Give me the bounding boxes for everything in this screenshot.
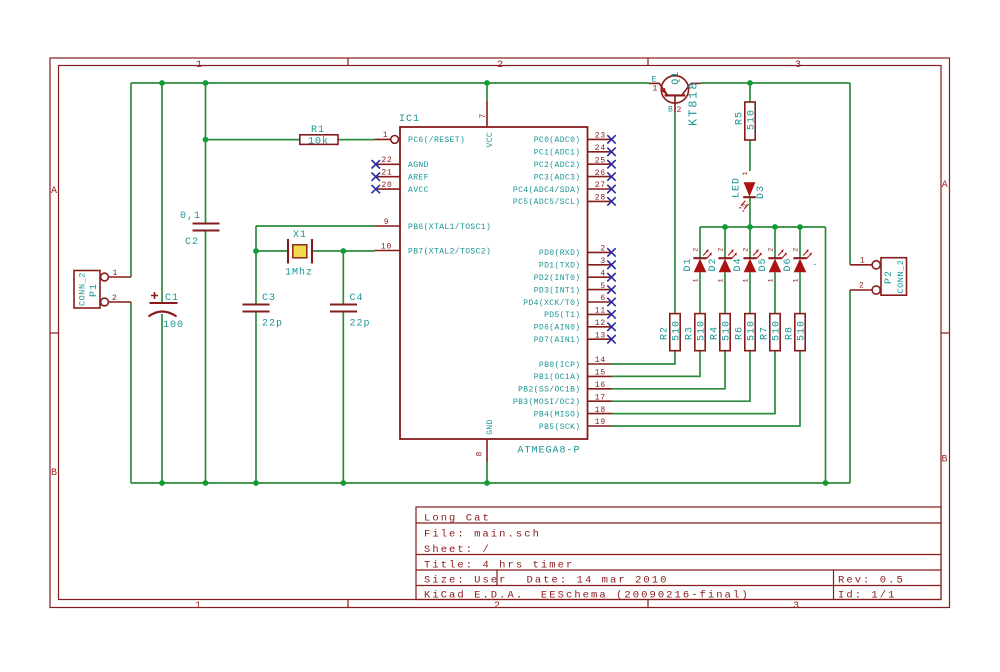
svg-text:KiCad E.D.A. EESchema (200902: KiCad E.D.A. EESchema (20090216-final): [424, 590, 750, 602]
svg-text:C3: C3: [262, 293, 276, 304]
pin 15 PB1(OC1A): [534, 369, 612, 383]
svg-text:2: 2: [497, 60, 503, 71]
svg-text:2: 2: [600, 245, 606, 254]
junction LED rail D6: [797, 224, 803, 230]
svg-text:P1: P1: [89, 283, 100, 297]
LED D4: [733, 248, 762, 283]
pin 28 PC5(ADC5/SCL): [513, 194, 616, 208]
svg-text:1: 1: [768, 278, 776, 282]
wire PB5 to R8: [612, 351, 801, 426]
svg-text:P2: P2: [884, 270, 895, 284]
LED D5: [758, 248, 787, 283]
svg-text:LED: LED: [732, 177, 743, 198]
svg-text:CONN_2: CONN_2: [896, 260, 906, 294]
resistor R3: [685, 314, 708, 351]
svg-text:AREF: AREF: [408, 174, 429, 183]
svg-text:VCC: VCC: [486, 132, 495, 148]
wire P1 pin2 down: [130, 302, 132, 483]
svg-text:E: E: [652, 76, 657, 85]
svg-text:PC6(/RESET): PC6(/RESET): [408, 136, 465, 145]
svg-text:AVCC: AVCC: [408, 186, 429, 195]
svg-text:PD1(TXD): PD1(TXD): [539, 262, 581, 271]
svg-text:R7: R7: [760, 326, 771, 340]
border frame: [50, 58, 950, 608]
junction C2 top: [203, 80, 209, 86]
svg-text:22p: 22p: [350, 319, 371, 330]
svg-text:2: 2: [742, 203, 750, 207]
svg-text:10: 10: [381, 242, 392, 251]
junction LED rail D2: [722, 224, 728, 230]
svg-text:PD2(INT0): PD2(INT0): [534, 274, 581, 283]
capacitor C2: [180, 211, 220, 248]
svg-text:B: B: [668, 106, 673, 115]
svg-text:D6: D6: [783, 257, 794, 271]
svg-text:R8: R8: [785, 326, 796, 340]
resistor R6: [735, 314, 758, 351]
svg-text:PB0(ICP): PB0(ICP): [539, 361, 581, 370]
svg-text:6: 6: [600, 294, 606, 303]
svg-text:C4: C4: [350, 293, 364, 304]
pin 9 PB6(XTAL1/TOSC1): [375, 218, 492, 232]
svg-text:PB4(MISO): PB4(MISO): [534, 410, 581, 419]
pin 14 PB0(ICP): [539, 356, 612, 370]
svg-text:510: 510: [771, 320, 782, 341]
wire D6 column: [799, 227, 801, 314]
junction R5 top: [747, 80, 753, 86]
wire D1 column: [699, 227, 701, 314]
svg-text:1: 1: [653, 85, 659, 94]
svg-text:21: 21: [381, 169, 392, 178]
wire VCC top rail right: [701, 82, 851, 84]
pin 20 AVCC: [372, 181, 429, 195]
svg-text:14: 14: [595, 356, 606, 365]
junction R1 node: [203, 137, 209, 143]
svg-text:R6: R6: [735, 326, 746, 340]
svg-text:File: main.sch: File: main.sch: [424, 529, 541, 541]
svg-text:1: 1: [860, 257, 866, 266]
svg-text:R2: R2: [660, 326, 671, 340]
wire C2 top: [205, 83, 207, 223]
svg-text:1: 1: [196, 60, 202, 71]
junction LED rail D3: [747, 224, 753, 230]
svg-text:R3: R3: [685, 326, 696, 340]
junction VCC pin: [484, 80, 490, 86]
wire VCC pin7: [486, 83, 488, 101]
pin 11 PD5(T1): [544, 307, 616, 321]
svg-text:B: B: [942, 455, 948, 466]
pin 5 PD3(INT1): [534, 282, 616, 296]
pin 21 AREF: [372, 169, 429, 183]
wire P1 pin1 up: [130, 83, 132, 277]
svg-text:9: 9: [384, 218, 390, 227]
svg-text:PC4(ADC4/SDA): PC4(ADC4/SDA): [513, 186, 581, 195]
svg-text:Size: User: Size: User: [424, 575, 508, 587]
wire D2 column: [724, 227, 726, 314]
junction C4 bottom: [340, 480, 346, 486]
svg-text:Sheet: /: Sheet: /: [424, 544, 491, 556]
junction C1 top: [159, 80, 165, 86]
svg-text:2: 2: [693, 248, 701, 252]
svg-text:B: B: [51, 468, 57, 479]
svg-text:1: 1: [693, 278, 701, 282]
junction X1 left: [253, 248, 259, 254]
svg-text:23: 23: [595, 132, 606, 141]
svg-text:20: 20: [381, 181, 392, 190]
op-amp IC1 body (ATMEGA8-P): [400, 127, 588, 439]
pin 27 PC4(ADC4/SDA): [513, 181, 616, 195]
svg-text:D4: D4: [733, 257, 744, 271]
pin 2 PD0(RXD): [539, 245, 616, 259]
svg-text:Long Cat: Long Cat: [424, 513, 491, 525]
svg-text:510: 510: [746, 109, 757, 130]
svg-text:GND: GND: [486, 419, 495, 435]
svg-text:1: 1: [743, 278, 751, 282]
wire VCC top rail left: [131, 82, 649, 84]
svg-text:2: 2: [768, 248, 776, 252]
svg-text:5: 5: [600, 282, 606, 291]
svg-text:R1: R1: [311, 125, 325, 136]
wire LED anode rail: [700, 226, 826, 228]
svg-text:Rev: 0.5: Rev: 0.5: [838, 575, 905, 587]
pin 25 PC2(ADC2): [534, 156, 616, 170]
pin 1 PC6(/RESET): [375, 131, 466, 145]
wire C1 top: [161, 83, 163, 302]
svg-text:1: 1: [742, 171, 750, 175]
svg-text:R5: R5: [735, 111, 746, 125]
wire C1 bottom: [161, 314, 163, 483]
pin 3 PD1(TXD): [539, 257, 616, 271]
svg-text:PC3(ADC3): PC3(ADC3): [534, 173, 581, 182]
svg-text:3: 3: [793, 601, 799, 612]
svg-text:R4: R4: [710, 326, 721, 340]
svg-text:Date: 14 mar 2010: Date: 14 mar 2010: [527, 575, 669, 587]
svg-text:PC5(ADC5/SCL): PC5(ADC5/SCL): [513, 198, 581, 207]
wire Q1 base down to R2: [674, 112, 676, 313]
svg-text:CONN_2: CONN_2: [78, 272, 88, 306]
svg-text:PD7(AIN1): PD7(AIN1): [534, 336, 581, 345]
wire R5 to D3: [749, 140, 751, 171]
svg-text:22: 22: [381, 156, 392, 165]
svg-text:2: 2: [859, 282, 865, 291]
svg-text:D3: D3: [756, 185, 767, 199]
pin 17 PB3(MOSI/OC2): [513, 393, 612, 407]
pin 8 GND: [475, 419, 495, 462]
wire GND bottom rail: [131, 482, 850, 484]
svg-text:26: 26: [595, 169, 606, 178]
LED D1: [683, 248, 712, 283]
svg-text:19: 19: [595, 418, 606, 427]
pin 24 PC1(ADC1): [534, 144, 616, 158]
svg-text:PD6(AIN0): PD6(AIN0): [534, 324, 581, 333]
junction X1 right: [340, 248, 346, 254]
svg-text:100: 100: [163, 320, 184, 331]
junction LED rail drop: [823, 480, 829, 486]
svg-text:1: 1: [793, 278, 801, 282]
svg-text:PB2(SS/OC1B): PB2(SS/OC1B): [518, 386, 580, 395]
pin 12 PD6(AIN0): [534, 319, 616, 333]
svg-text:7: 7: [479, 113, 488, 119]
svg-text:1Mhz: 1Mhz: [285, 267, 313, 279]
wire D3 to LED rail: [749, 198, 751, 228]
svg-text:AGND: AGND: [408, 161, 429, 170]
junction LED rail D5: [772, 224, 778, 230]
svg-text:1: 1: [383, 131, 389, 140]
svg-text:27: 27: [595, 181, 606, 190]
svg-text:16: 16: [595, 381, 606, 390]
pin 23 PC0(ADC0): [534, 132, 616, 146]
svg-text:2: 2: [494, 601, 500, 612]
svg-text:1: 1: [718, 278, 726, 282]
svg-text:28: 28: [595, 194, 606, 203]
svg-text:10k: 10k: [308, 135, 329, 147]
svg-text:4: 4: [600, 269, 606, 278]
svg-text:PD4(XCK/T0): PD4(XCK/T0): [523, 299, 580, 308]
connector P2: [850, 258, 907, 296]
svg-text:PD0(RXD): PD0(RXD): [539, 249, 581, 258]
wire D4 column: [749, 227, 751, 314]
wire X1 left lead: [256, 250, 287, 252]
svg-text:510: 510: [746, 320, 757, 341]
svg-text:Id: 1/1: Id: 1/1: [838, 590, 896, 602]
capacitor C3: [243, 293, 284, 330]
resistor R4: [710, 314, 733, 351]
connector P1: [74, 271, 131, 309]
LED D6: [783, 248, 819, 283]
pin 26 PC3(ADC3): [534, 169, 616, 183]
svg-text:Q1: Q1: [671, 71, 682, 85]
LED D2: [708, 248, 737, 283]
svg-text:KT818: KT818: [687, 80, 701, 126]
wire XTAL1 to PB6: [256, 225, 375, 227]
svg-text:C1: C1: [165, 293, 179, 304]
svg-text:D1: D1: [683, 257, 694, 271]
svg-text:18: 18: [595, 406, 606, 415]
svg-text:2: 2: [743, 248, 751, 252]
svg-text:PB5(SCK): PB5(SCK): [539, 423, 581, 432]
svg-text:2: 2: [677, 106, 683, 115]
crystal X1: [285, 230, 313, 279]
svg-text:A: A: [51, 186, 57, 197]
svg-text:A: A: [942, 180, 948, 191]
wire PB4 to R7: [612, 351, 776, 414]
pin 7 VCC: [479, 101, 495, 148]
resistor R2: [660, 314, 683, 351]
svg-text:17: 17: [595, 393, 606, 402]
svg-text:PB6(XTAL1/TOSC1): PB6(XTAL1/TOSC1): [408, 223, 491, 232]
wire C2 bottom: [205, 231, 207, 483]
svg-text:0,1: 0,1: [180, 211, 201, 222]
svg-text:3: 3: [600, 257, 606, 266]
wire R1 left: [206, 139, 300, 141]
svg-text:-: -: [813, 261, 819, 270]
svg-text:2: 2: [718, 248, 726, 252]
junction C2 bottom: [203, 480, 209, 486]
wire X1 right down to C4: [342, 251, 344, 304]
svg-text:510: 510: [671, 320, 682, 341]
junction C3 bottom: [253, 480, 259, 486]
wire PB3 to R6: [612, 351, 751, 402]
wire PB2 to R4: [612, 351, 726, 389]
svg-text:510: 510: [696, 320, 707, 341]
svg-text:X1: X1: [293, 230, 307, 241]
svg-text:12: 12: [595, 319, 606, 328]
pin 18 PB4(MISO): [534, 406, 612, 420]
svg-text:3: 3: [795, 60, 801, 71]
wire P2 pin2 down: [849, 290, 851, 483]
svg-text:13: 13: [595, 331, 606, 340]
pin 19 PB5(SCK): [539, 418, 612, 432]
svg-text:1: 1: [195, 601, 201, 612]
resistor R1: [300, 125, 338, 147]
wire XTAL2 to PB7: [343, 250, 374, 252]
wire C3 bottom: [255, 312, 257, 483]
pin 4 PD2(INT0): [534, 269, 616, 283]
svg-text:D5: D5: [758, 257, 769, 271]
svg-text:25: 25: [595, 156, 606, 165]
svg-text:PD3(INT1): PD3(INT1): [534, 286, 581, 295]
wire X1 left down to C3: [255, 226, 257, 304]
svg-text:PB1(OC1A): PB1(OC1A): [534, 373, 581, 382]
pin 6 PD4(XCK/T0): [523, 294, 615, 308]
wire D5 column: [774, 227, 776, 314]
svg-text:IC1: IC1: [399, 114, 420, 125]
svg-text:2: 2: [793, 248, 801, 252]
svg-text:510: 510: [796, 320, 807, 341]
resistor R8: [785, 314, 808, 351]
svg-text:PB3(MOSI/OC2): PB3(MOSI/OC2): [513, 398, 581, 407]
svg-text:PC2(ADC2): PC2(ADC2): [534, 161, 581, 170]
svg-text:2: 2: [112, 294, 118, 303]
pin 16 PB2(SS/OC1B): [518, 381, 611, 395]
svg-text:510: 510: [721, 320, 732, 341]
pin 10 PB7(XTAL2/TOSC2): [375, 242, 492, 256]
junction GND pin: [484, 480, 490, 486]
svg-text:11: 11: [595, 307, 606, 316]
svg-text:Title: 4 hrs timer: Title: 4 hrs timer: [424, 560, 574, 572]
capacitor C1: [149, 292, 185, 331]
wire LED rail down right: [825, 227, 827, 483]
resistor R5: [735, 102, 758, 140]
svg-text:PD5(T1): PD5(T1): [544, 311, 580, 320]
svg-text:D2: D2: [708, 257, 719, 271]
wire GND pin8: [486, 463, 488, 484]
svg-text:15: 15: [595, 369, 606, 378]
pin 13 PD7(AIN1): [534, 331, 616, 345]
wire P2 pin1 up: [849, 83, 851, 265]
svg-text:C2: C2: [185, 237, 199, 248]
LED D3: [732, 177, 768, 212]
resistor R7: [760, 314, 783, 351]
wire C4 bottom: [342, 312, 344, 483]
wire X1 right lead: [313, 250, 343, 252]
wire PB0 to R2: [612, 351, 676, 364]
svg-text:22p: 22p: [262, 319, 283, 330]
svg-text:8: 8: [475, 451, 484, 457]
svg-text:PC1(ADC1): PC1(ADC1): [534, 149, 581, 158]
capacitor C4: [330, 293, 371, 330]
wire R5 top: [749, 83, 751, 102]
svg-text:1: 1: [113, 269, 119, 278]
junction C1 bottom: [159, 480, 165, 486]
svg-text:24: 24: [595, 144, 606, 153]
pin 22 AGND: [372, 156, 429, 170]
title block: [416, 507, 941, 600]
svg-text:ATMEGA8-P: ATMEGA8-P: [518, 446, 581, 457]
wire PB1 to R3: [612, 351, 701, 377]
svg-text:PC0(ADC0): PC0(ADC0): [534, 136, 581, 145]
svg-text:PB7(XTAL2/TOSC2): PB7(XTAL2/TOSC2): [408, 247, 491, 256]
transistor Q1: [649, 71, 701, 126]
wire R1 right to reset: [338, 139, 375, 141]
